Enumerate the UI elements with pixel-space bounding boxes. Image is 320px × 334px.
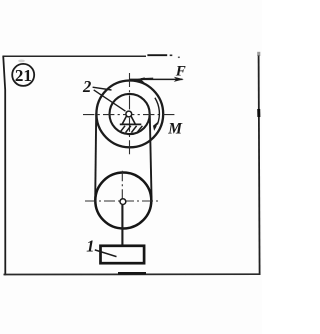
pulley 2 outer rim (96, 81, 163, 148)
scan smudge (18, 60, 25, 63)
label 2 leader upper branch (93, 87, 112, 90)
problem number badge circle 21 (12, 64, 34, 86)
frame right border (257, 52, 260, 275)
lower pulley axle pin (120, 199, 126, 205)
svg-text:2: 2 (82, 77, 91, 96)
svg-text:M: M (167, 121, 183, 138)
svg-text:F: F (175, 63, 186, 79)
axle pin circle (126, 111, 132, 117)
force F mid arrowhead pointing left (132, 77, 145, 84)
cord left (95, 114, 96, 201)
block 1 rectangle (101, 246, 145, 263)
cord right (150, 116, 152, 201)
hanger rod (121, 201, 123, 246)
frame top border (3, 55, 180, 57)
moment M arrowhead (153, 122, 158, 131)
frame bottom border (4, 273, 261, 274)
pulley 2 vertical centerline (129, 73, 131, 157)
pin support triangle (122, 116, 135, 124)
svg-text:21: 21 (15, 66, 32, 85)
force F arrowhead right (174, 77, 184, 82)
label 1 leader (95, 250, 117, 257)
lower pulley vertical centerline (121, 171, 123, 200)
force F line (129, 78, 182, 80)
label 2 leader lower branch (94, 90, 126, 111)
lower pulley rim (95, 173, 151, 229)
moment M arc (155, 98, 160, 125)
pulley 2 horizontal centerline (83, 114, 177, 116)
pin support ground line (120, 123, 142, 125)
pulley 2 inner rim (110, 94, 150, 134)
pin support hatching (120, 126, 143, 133)
lower pulley horizontal centerline (85, 200, 160, 202)
svg-text:1: 1 (86, 236, 94, 255)
frame left border (3, 56, 5, 276)
